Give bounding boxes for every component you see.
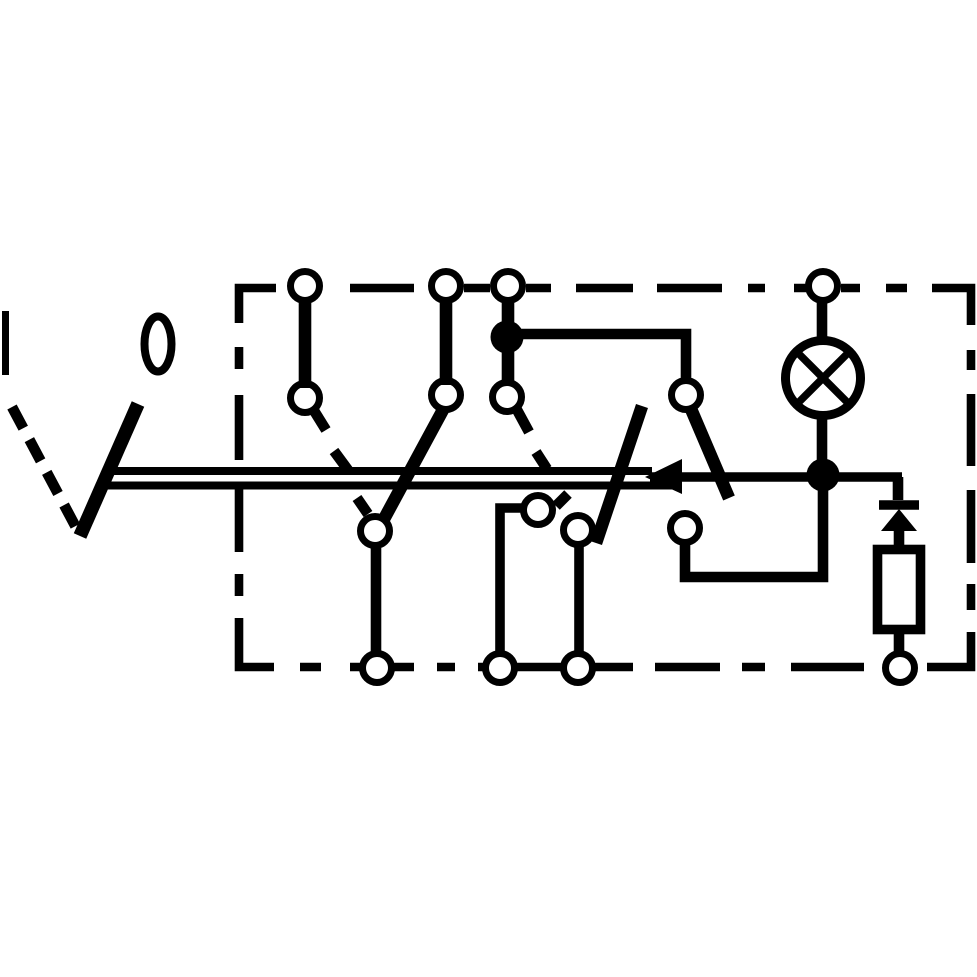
wire resistor to bottom terminal [894,629,905,655]
terminal A tail [556,494,568,506]
terminal circle pole 3 top [494,272,523,301]
terminal circle C [671,514,700,543]
lamp feed wire upper [817,300,828,340]
actuator bar top line [110,467,652,475]
housing outline bottom (dash-dot) [300,663,864,672]
pole 2 connector wire [440,298,453,385]
terminal circle pole 3 lower [493,383,522,412]
lamp cross line 2 [800,355,847,402]
terminal circle pole 1 top [291,272,320,301]
wire pole 2 to bottom terminal [371,548,382,655]
housing outline right (dash-dot) [927,350,971,667]
label I (position marker) [2,311,9,375]
terminal circle pole 1 lower [291,384,320,413]
wire terminal B to bottom terminal [574,546,584,655]
pole 1 open contact stub [313,409,326,430]
wire terminal A to bottom terminal [500,508,522,655]
terminal circle lamp top [809,272,838,301]
diode D1 cathode bar [879,500,919,510]
switch actuator lever [80,404,138,536]
terminal circle bottom 3 [564,654,593,683]
pole 3 open contact dash [536,452,547,469]
label 0 (position marker) [145,317,172,372]
pole 2 contact arm [384,408,444,519]
junction dot upper [491,321,524,354]
lamp L1 [786,341,861,416]
pole 1 connector wire [299,298,312,388]
pole 3 open contact stub [516,408,529,432]
resistor R1 [878,550,921,630]
terminal circle B [564,516,593,545]
terminal circle bottom 2 [486,654,515,683]
terminal circle bottom 1 [363,654,392,683]
wire diode to resistor [894,531,905,548]
wire junction to pole 4 [507,334,686,378]
pole 2 pivot tail [357,498,368,514]
actuator alternate position (dashed lever) [12,407,79,533]
wire terminal C to junction [685,490,823,577]
terminal circle A [524,496,553,525]
pole 4 contact arm right [691,409,729,498]
terminal circle pole 2 top [432,272,461,301]
housing outline left (dash-dot) [239,347,274,667]
lamp feed wire lower [817,416,828,462]
diode D1 triangle [881,509,917,531]
terminal circle pole 4 [672,381,701,410]
pole 1 open contact dash [334,451,348,470]
arrowhead [645,459,682,494]
pole 4 contact arm left [596,406,642,543]
illumination feed line with arrow [650,472,902,482]
lamp cross line 1 [800,355,847,402]
terminal circle pole 2 lower [432,381,461,410]
housing outline top (dash-dot) [239,288,971,325]
junction dot lower [807,459,840,492]
terminal circle bottom right [886,654,915,683]
pole 3 connector wire [502,298,515,383]
wire to diode [893,477,904,500]
terminal circle pole 2 bottom pivot [361,517,390,546]
actuator bar bottom line [103,481,677,489]
